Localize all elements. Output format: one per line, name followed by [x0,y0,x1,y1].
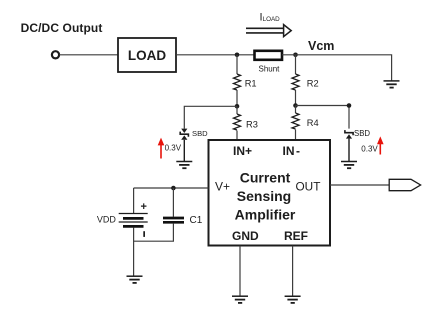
load box LOAD [118,38,176,72]
svg-text:V+: V+ [215,180,230,194]
resistor R2 [292,74,299,90]
svg-text:R1: R1 [245,78,257,88]
label - polarity (tick) [143,231,145,237]
current arrow (double-line open arrow) [246,25,291,37]
diode D1 SBD (left) [180,129,188,140]
svg-text:Vcm: Vcm [308,39,334,53]
wire REF pin [292,246,294,296]
ground (right clamp) [341,162,357,169]
wire node to R4 [295,106,297,114]
wire battery to ground [133,228,135,277]
wire node to R1 [236,55,238,74]
wire shunt to right ground [282,55,392,81]
wire SBD to ground [183,140,185,162]
junction node R2/R4 [293,103,298,108]
resistor R3 [234,114,241,130]
ground (left clamp) [176,162,192,169]
wire GND pin [239,246,241,296]
svg-text:REF: REF [284,229,308,243]
annotation 0.3V (left, red) [158,138,182,159]
resistor R4 [292,113,299,129]
op-amp U1 Current Sensing Amplifier [209,140,331,246]
svg-text:0.3V: 0.3V [361,144,378,153]
svg-text:R3: R3 [246,119,258,129]
wire terminal to LOAD [59,54,118,56]
wire R3 to IN+ pin [236,131,238,141]
svg-text:R2: R2 [307,78,319,88]
svg-text:Shunt: Shunt [259,65,281,74]
svg-text:Amplifier: Amplifier [235,207,296,223]
svg-text:OUT: OUT [296,180,321,194]
svg-text:IN-: IN- [283,144,301,158]
junction node right of shunt [293,53,298,58]
junction node V+/C1 [171,186,176,191]
wire OUT [330,184,389,186]
svg-text:Current: Current [240,170,291,186]
capacitor C1 [163,218,184,222]
wire right clamp branch [296,106,350,129]
svg-text:R4: R4 [307,118,319,128]
svg-text:C1: C1 [190,215,203,226]
wire SBD to ground [348,139,350,162]
svg-text:VDD: VDD [97,215,117,225]
svg-text:LOAD: LOAD [128,48,166,63]
ground (top right) [384,81,400,88]
diode D2 SBD (right) [345,130,353,139]
ground (battery) [127,276,143,283]
ground (REF pin) [285,296,301,303]
svg-text:0.3V: 0.3V [165,144,182,153]
resistor R1 [234,74,241,90]
svg-text:DC/DC Output: DC/DC Output [21,21,103,35]
resistor Shunt [255,51,283,60]
svg-text:GND: GND [232,229,259,243]
svg-text:+: + [141,201,147,213]
wire to battery [133,188,135,213]
junction node right clamp [347,103,352,108]
wire node to C1 [172,188,174,217]
svg-text:SBD: SBD [192,129,208,138]
wire C1 to battery return [134,224,174,242]
junction node left of shunt [235,53,240,58]
wire R4 to IN- pin [295,130,297,141]
svg-text:IN+: IN+ [233,144,252,158]
annotation 0.3V (right, red) [361,136,383,154]
svg-text:SBD: SBD [354,129,370,138]
wire V+ supply [134,187,209,189]
wire R2 to node [295,90,297,106]
ground (GND pin) [232,296,248,303]
terminal (open circle) [52,51,59,58]
svg-text:Sensing: Sensing [237,188,291,204]
output port flag [389,179,420,190]
wire left clamp branch [184,106,237,128]
wire LOAD to shunt [176,54,254,56]
battery VDD [119,214,148,227]
junction node R1/R3 [235,104,240,109]
wire R1 to node [236,90,238,106]
wire node to R3 [236,106,238,114]
wire node to R2 [295,55,297,74]
